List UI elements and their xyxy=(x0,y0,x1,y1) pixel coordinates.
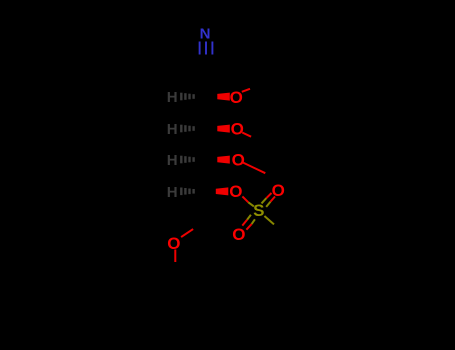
bond O3-CH3 (red, full visible) xyxy=(243,162,266,173)
svg-text:S: S xyxy=(253,201,264,220)
bold wedge C2-O1 (red half) xyxy=(217,93,230,101)
hashed wedge C2-H xyxy=(180,93,195,101)
double bond S=O6 line a (oxygen half) xyxy=(242,220,247,226)
double bond S=O6 line b (oxygen half) xyxy=(246,224,251,230)
bond O4-S (sulfur half) xyxy=(248,202,254,206)
svg-text:O: O xyxy=(231,120,244,139)
svg-text:H: H xyxy=(167,89,178,106)
bond S-CH3 (sulfur half) xyxy=(264,216,274,224)
svg-text:O: O xyxy=(272,181,285,200)
double bond S=O5 line a (sulfur half) xyxy=(262,198,267,203)
hashed wedge C4-H xyxy=(180,156,195,164)
hashed wedge C3-H xyxy=(180,125,195,133)
svg-text:O: O xyxy=(232,225,245,244)
svg-text:O: O xyxy=(167,234,180,253)
bond O4-S (red half) xyxy=(242,196,248,202)
svg-text:O: O xyxy=(229,182,242,201)
double bond S=O5 line a (oxygen half) xyxy=(266,193,271,198)
svg-text:O: O xyxy=(232,151,245,170)
svg-text:H: H xyxy=(167,184,178,201)
bold wedge C3-O2 (red half) xyxy=(217,125,230,133)
svg-text:N: N xyxy=(200,25,211,42)
double bond S=O5 line b (sulfur half) xyxy=(266,202,270,207)
bold wedge C4-O3 (red half) xyxy=(217,156,230,164)
double bond S=O6 line a (sulfur half) xyxy=(247,215,251,220)
bond C6-O7 (red half) xyxy=(181,229,193,237)
double bond S=O6 line b (sulfur half) xyxy=(252,219,255,224)
bond O2-CH3 (red half) xyxy=(242,133,251,137)
triple bond C1#N1 xyxy=(200,42,213,55)
hashed wedge C5-H xyxy=(180,188,195,196)
bold wedge C5-O4 (red half) xyxy=(216,187,229,195)
svg-text:H: H xyxy=(167,152,178,169)
svg-text:O: O xyxy=(230,88,243,107)
bond O7-CH3 (red half) xyxy=(174,250,176,263)
svg-text:H: H xyxy=(167,121,178,138)
double bond S=O5 line b (oxygen half) xyxy=(271,197,276,202)
bond O1-CH3 (red half) xyxy=(242,89,250,92)
